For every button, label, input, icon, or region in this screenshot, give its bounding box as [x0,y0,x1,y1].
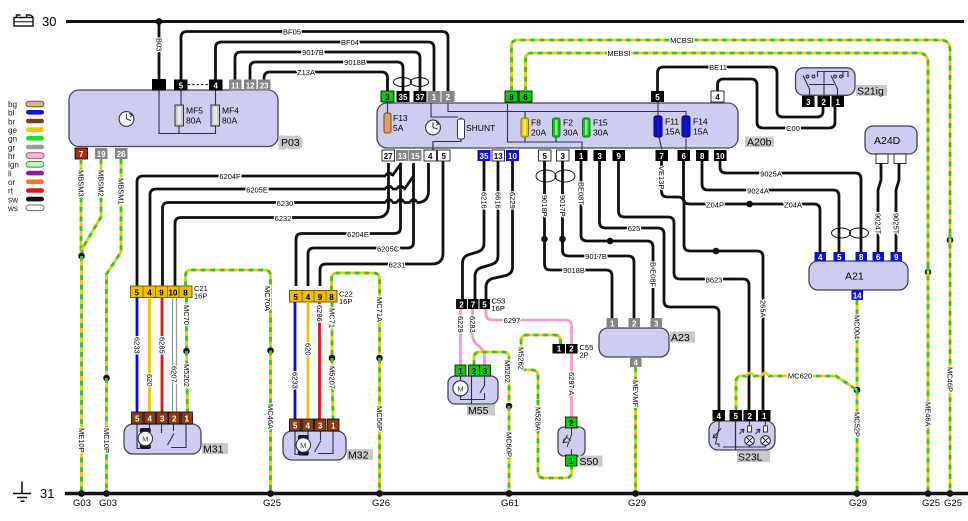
svg-text:8: 8 [509,93,514,102]
wire MEBSI : module pin 6 up and right [526,53,929,266]
control unit A24D [865,126,917,154]
svg-text:3: 3 [560,152,565,161]
svg-text:4: 4 [428,152,433,161]
S50 pin 1 [566,455,578,466]
M31 pin 2 [169,412,181,424]
svg-text:3: 3 [385,93,390,102]
svg-text:6233: 6233 [133,337,142,354]
fuse SHUNT [458,119,465,139]
svg-text:9: 9 [894,253,899,262]
module top pin 37 [414,91,427,102]
wire M5207 : splice to M32 pin 1 [332,358,333,419]
svg-text:3: 3 [806,98,811,107]
svg-text:15: 15 [411,152,420,161]
svg-text:14: 14 [853,292,862,301]
module bottom pin 27 [382,150,395,161]
svg-text:M5202: M5202 [503,360,512,383]
svg-text:2: 2 [569,345,574,354]
svg-text:6: 6 [876,253,881,262]
fuse MF5 80A [175,105,184,126]
svg-text:G29: G29 [628,498,646,509]
wire 9017P / 9017B : module pin 3w to A23 pin 2 [563,161,635,318]
svg-text:SHUNT: SHUNT [466,123,495,133]
svg-text:6: 6 [681,152,686,161]
svg-text:F2: F2 [563,118,573,128]
wire 6216 : module pin 35 to C53 pin 2 [463,161,485,299]
svg-text:19: 19 [97,150,106,159]
wire BE08T / BE08F : module pin 1 to A23 pin 3 [581,161,653,318]
svg-text:13: 13 [494,152,503,161]
svg-text:VE13P: VE13P [657,166,666,189]
svg-text:5: 5 [441,152,446,161]
S23L lamp symbols [745,436,771,446]
svg-text:ws: ws [7,204,18,213]
module bottom pin 6 [678,150,691,161]
wire 9025A : module pin 10b to A21 pin 8 [720,161,861,252]
dashed link pin5-pin4 [188,84,209,86]
S23L pin 1 [758,410,771,421]
svg-text:1: 1 [610,320,615,329]
svg-text:A24D: A24D [874,135,901,147]
ground node G25 [267,490,274,497]
svg-text:4: 4 [213,82,218,91]
svg-text:li: li [8,169,12,178]
svg-text:1: 1 [762,412,767,421]
svg-text:MBSM2: MBSM2 [97,170,106,197]
twisted pair symbol above module pins 35/37 [394,78,429,87]
svg-text:8: 8 [700,152,705,161]
svg-text:6297: 6297 [504,316,521,325]
S23L internals [713,421,766,450]
splice MC004/MC620/MC52P [854,387,861,394]
level switch S50 [558,427,585,456]
svg-text:30A: 30A [563,128,578,138]
splice 9017P/9017B [559,236,566,243]
svg-text:6285: 6285 [158,337,167,354]
wire MC56P : splice to ground G26 [378,358,381,494]
svg-text:3: 3 [654,320,659,329]
svg-text:5A: 5A [393,123,404,133]
M31 pin 4 [144,412,156,424]
svg-text:A20b: A20b [747,137,772,149]
splice BE08T/BE08F [607,238,614,245]
svg-text:MF4: MF4 [222,106,239,116]
ground node G29 (right) [854,490,861,497]
lamp unit S23L [709,421,775,450]
module top pin 5 [651,91,664,102]
svg-text:MC71: MC71 [328,308,337,328]
svg-text:6205E: 6205E [246,186,268,195]
S21ig pin 2 [818,96,831,107]
wire B03 [158,22,161,80]
svg-text:M: M [300,441,306,450]
svg-text:5: 5 [135,415,140,424]
svg-text:2: 2 [569,419,574,428]
wiper motor M32 [283,431,346,460]
svg-text:G25: G25 [922,498,940,509]
A23 pin 1 [607,318,619,328]
svg-text:B E08F: B E08F [649,262,658,287]
P03 top pin 23 [258,80,271,91]
svg-text:2P: 2P [580,351,589,360]
fuse box P03 [69,90,278,147]
A21 pin 8 [856,252,868,262]
P03 top pin 11 [229,80,242,91]
svg-text:P03: P03 [281,137,300,149]
wire MC10P : splice to ground G03 [105,378,108,494]
wire ME10P : splice to ground G03 [80,256,83,494]
splice 9018P/9018B [541,236,548,243]
svg-text:6232: 6232 [275,214,292,223]
module bottom pin 8 [696,150,709,161]
svg-text:9018P: 9018P [540,195,549,217]
wire ME46A : splice down to ground G25 [927,266,930,494]
svg-text:23: 23 [260,82,269,91]
svg-text:MC004: MC004 [853,315,862,339]
svg-text:BE11: BE11 [709,63,727,72]
svg-text:9018B: 9018B [344,58,366,67]
wire 625 : module pin 3b to S23L pin 4 [600,161,720,410]
wire BF04 : P03 pin4 to module pin 1 [216,42,435,91]
svg-text:B03: B03 [155,38,164,51]
svg-text:5: 5 [837,253,842,262]
A24D pin right [894,154,906,164]
wire VE13P / 265A : module pin 7 to S23L pin 1 [662,161,764,410]
module top pin 4 [711,91,724,102]
S23L pin 5 [730,410,743,421]
svg-text:1: 1 [579,152,584,161]
connector C21 16P [131,286,193,298]
svg-text:6297 A: 6297 A [567,372,576,395]
wire 6232 : module pin 27 to C21 pin 10 [175,163,389,286]
svg-text:C00: C00 [786,124,800,133]
svg-text:M5207: M5207 [328,366,337,389]
svg-text:620: 620 [304,343,313,356]
svg-text:35: 35 [399,93,408,102]
fuse F14 15A [682,116,690,137]
svg-text:620: 620 [145,374,154,387]
svg-text:16P: 16P [194,292,207,301]
svg-text:7: 7 [659,152,664,161]
connector C53 16P [456,299,490,309]
svg-text:5: 5 [733,412,738,421]
svg-text:2: 2 [446,93,451,102]
svg-text:5: 5 [655,93,660,102]
junction on bus 30 at B03 [156,18,163,25]
svg-text:5: 5 [179,82,184,91]
legend wire colour codes [7,100,19,213]
connector C55 2P [553,344,578,354]
wire BF05 : P03 pin5 to module pin 2 [181,32,448,92]
module top pin 2 [442,91,455,102]
svg-text:1: 1 [835,98,840,107]
module bottom pin 4 [424,150,437,161]
svg-text:8: 8 [859,253,864,262]
ground node G29 [632,490,639,497]
svg-text:MF5: MF5 [186,106,203,116]
M31 pin 5 [132,412,144,424]
wire MC46P : splice down to ground G25 [949,234,952,494]
wire MC620 : S23L pin 5 to splice on MC52P [736,376,857,410]
wire MC71A : C22 pin 8 up over to splice [332,273,380,354]
wire MC004 : A21 pin 14 down [856,300,859,386]
svg-text:8: 8 [329,293,334,302]
svg-text:G25: G25 [944,498,962,509]
svg-text:9: 9 [159,289,164,298]
ground node G26 [376,490,383,497]
svg-text:3: 3 [483,367,488,376]
splice MBSM/ME10P [78,253,85,260]
ground node G03 (second) [103,490,110,497]
svg-text:1: 1 [184,415,189,424]
svg-text:7: 7 [79,150,84,159]
svg-text:5: 5 [293,293,298,302]
svg-text:6204F: 6204F [219,172,241,181]
A21 pin 9 [891,252,903,262]
svg-text:2: 2 [632,320,637,329]
svg-text:11: 11 [231,82,240,91]
splice MC70/M5202 [183,348,190,355]
svg-text:20A: 20A [531,128,546,138]
svg-text:4: 4 [716,412,721,421]
svg-text:80A: 80A [222,116,237,126]
svg-text:MBSM3: MBSM3 [77,170,86,197]
svg-text:1: 1 [569,457,574,466]
S23L indicator arrows [740,429,761,434]
svg-text:sw: sw [8,195,18,204]
svg-text:G61: G61 [501,498,519,509]
control unit A21 [809,261,908,290]
wire 6204E : module pin 13 to C22 pin 5 [296,163,401,286]
splice M5202/MC60P [506,403,513,410]
ground node G03 [78,490,85,497]
svg-text:16P: 16P [339,297,352,306]
svg-text:2: 2 [472,367,477,376]
svg-text:9025A: 9025A [760,170,782,179]
wire 6207 (shielded pair) : C21 pin 10 to M31 pin 2 [172,298,174,413]
svg-text:MC56P: MC56P [375,406,384,431]
svg-text:9024A: 9024A [747,187,769,196]
svg-text:BE08T: BE08T [577,182,586,205]
P03 bottom pin 26 [115,148,128,159]
svg-text:4: 4 [305,422,310,431]
svg-text:MC70A: MC70A [263,286,272,311]
M32 pin 5 [290,419,302,431]
P03 bottom pin 7 [75,148,88,159]
wire 6230 : module pin 4 to C21 pin 9 [163,163,429,286]
module bottom pin 3b [594,150,607,161]
svg-text:Z13A: Z13A [297,68,315,77]
svg-text:30: 30 [42,14,56,29]
svg-text:BF04: BF04 [341,38,359,47]
wire MEVMF : A23 pin 4 to ground G29 [634,367,637,494]
bus 30 [66,20,964,23]
module bottom pin 10 [506,150,519,161]
S21ig pin 3 [802,96,815,107]
svg-text:M5202: M5202 [182,364,191,387]
svg-text:M: M [142,435,148,444]
svg-text:1: 1 [331,422,336,431]
M55 pin 3 [480,365,491,376]
wire 6205E : module pin 15 to C21 pin 4 [150,163,414,286]
svg-text:F13: F13 [393,113,408,123]
bus 31 [65,492,968,496]
wire 9017B : P03 pin11 to module pin 37 [235,52,420,91]
svg-text:ME10P: ME10P [77,428,86,453]
connector C22 16P [290,291,338,303]
wire MC71 : C22 pin 8 down [331,302,334,355]
wire 6229 : module pin 10 to C53 pin 5 [486,161,513,299]
wire 6286 : C22 pin 9 to M32 pin 3 [318,302,321,419]
M32 pin 3 [315,419,327,431]
M32 pin 4 [302,419,314,431]
wire M528A : to S50 pin 1 [538,400,572,478]
module bottom pin 13 [396,150,409,161]
svg-text:F8: F8 [531,118,541,128]
svg-text:MC71A: MC71A [375,297,384,322]
S21ig pin 1 [832,96,845,107]
module bottom pin 35 [478,150,491,161]
svg-text:6: 6 [523,93,528,102]
svg-text:br: br [8,117,16,126]
wire 620 : C22 pin 4 to M32 pin 4 [307,302,310,419]
wire MC46A : splice to ground G25 [269,351,272,494]
svg-text:26: 26 [117,150,126,159]
svg-text:2: 2 [747,412,752,421]
svg-text:3: 3 [318,422,323,431]
wire M5202 : splice to M31 pin 1 [187,351,188,412]
svg-text:MBSM1: MBSM1 [117,178,126,205]
svg-text:F14: F14 [693,117,708,127]
module bottom pin 7 [656,150,669,161]
module bottom pin 1 [575,150,588,161]
svg-text:10: 10 [716,152,725,161]
svg-text:6230: 6230 [277,199,294,208]
wire 6204F : module pin 13 to C21 pin 5 [137,163,402,286]
splice MCBSI/MC46P [947,237,954,244]
wire MC70 : C21 pin 8 down [185,298,188,349]
svg-text:6205C: 6205C [377,245,400,254]
wire 6231 : module pin 5 to C22 pin 9 [320,161,443,286]
svg-text:6229: 6229 [508,192,517,209]
svg-text:BF05: BF05 [283,28,301,37]
clock icon P03 [119,112,134,127]
wire MCBSI : module pin 8 up and right [512,40,951,234]
svg-text:265A: 265A [759,300,768,318]
twisted pair symbol below module pins 5b/3w [536,170,575,182]
A21 pin 14 [852,290,864,300]
P03 top pin B03 (unnumbered) [152,79,166,91]
svg-text:3: 3 [597,152,602,161]
M32 pin 1 [328,419,340,431]
svg-text:625: 625 [628,224,641,233]
A24D pin left [876,154,888,164]
svg-text:9017B: 9017B [302,48,324,57]
control unit A23 [599,328,669,357]
svg-text:30A: 30A [593,128,608,138]
wire 9024T : A24D to A21 pin 6 [878,164,881,253]
svg-text:A21: A21 [845,271,864,283]
svg-text:9017B: 9017B [585,252,607,261]
svg-text:Z04P: Z04P [706,201,724,210]
A21 pin 5 [834,252,846,262]
wire 6297 : C53 pin 5 to C55 pin 2 [486,309,572,344]
svg-text:ME46A: ME46A [924,402,933,427]
svg-text:2: 2 [821,98,826,107]
svg-text:gr: gr [8,143,16,152]
wire 620 : C21 pin 4 to M31 pin 4 [148,298,151,413]
svg-text:10: 10 [169,289,178,298]
wire 6616 : module pin 13b to C53 pin 7 [475,161,498,299]
svg-text:4: 4 [147,289,152,298]
ignition switch S21ig [796,68,856,96]
P03 top pin 4 [209,80,223,91]
svg-text:6229: 6229 [456,316,465,333]
A21 pin 6 [873,252,885,262]
S23L pin 2 [744,410,757,421]
svg-text:6233: 6233 [291,372,300,389]
svg-text:3: 3 [160,415,165,424]
svg-text:7: 7 [471,301,476,310]
svg-text:4: 4 [147,415,152,424]
svg-text:1: 1 [557,345,562,354]
svg-text:6216: 6216 [480,192,489,209]
wire BE11 : module pin 5 to S21ig pin 2 [658,67,824,117]
svg-text:A23: A23 [671,332,690,344]
module top pin 1 [428,91,441,102]
fuse F8 20A [521,118,529,137]
M31 internals [137,424,186,449]
M32 internals [295,431,333,455]
svg-text:9: 9 [318,293,323,302]
wiper motor M31 [124,424,201,454]
M55 pin 1 [455,365,466,376]
twisted pair symbol above A21 [832,228,869,238]
clock icon module [426,120,441,135]
fuse F15 30A [583,118,591,137]
svg-text:6204E: 6204E [347,230,369,239]
svg-text:gn: gn [8,135,18,144]
module top pin 3 [381,91,394,102]
svg-text:F11: F11 [665,117,679,127]
svg-text:MEBSI: MEBSI [607,49,630,58]
P03 top pin 12 [244,80,257,91]
wire MC70A : C21 pin 8 up over to splice [186,270,271,347]
module internal traces [388,102,687,151]
svg-text:M: M [457,384,463,393]
wire 8623 : module pin 9 to S23L pin 2 [619,161,750,410]
wire Z04P / Z04A : module pin 6 to A21 pin 4 [684,161,821,252]
svg-text:Z04A: Z04A [784,201,802,210]
svg-text:MC10P: MC10P [102,428,111,453]
module bottom pin 5b [539,150,552,161]
S23L pin 4 [713,410,726,421]
wire MC52P : splice down to ground G29 [856,390,859,494]
fuse F11 15A [654,116,662,137]
splice MC70A/MC46A [267,347,274,354]
svg-text:16P: 16P [492,304,505,313]
svg-text:MC620: MC620 [788,372,812,381]
svg-text:4: 4 [633,359,638,368]
svg-text:G29: G29 [849,498,867,509]
module bottom pin 15 [409,150,422,161]
svg-text:1: 1 [432,93,437,102]
svg-text:9017P: 9017P [558,195,567,217]
svg-text:rt: rt [8,187,14,196]
module bottom pin 10b [714,150,727,161]
svg-text:bl: bl [8,109,15,118]
wire 6229 (pink) : C53 pin 2 to M55 pin 1 [459,309,462,365]
